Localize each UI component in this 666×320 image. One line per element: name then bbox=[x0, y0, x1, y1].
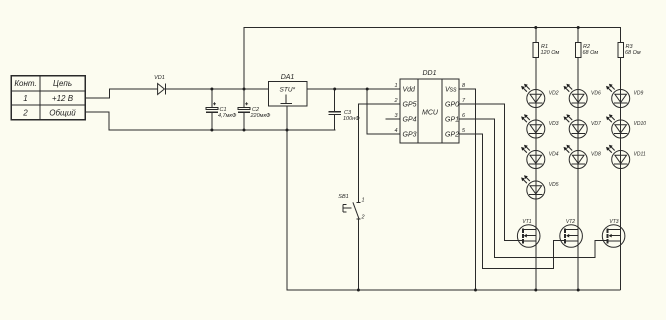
svg-text:VD9: VD9 bbox=[634, 91, 644, 97]
svg-text:68 Ом: 68 Ом bbox=[583, 50, 599, 56]
svg-text:1: 1 bbox=[362, 198, 365, 204]
svg-text:DA1: DA1 bbox=[281, 74, 295, 81]
svg-text:VD1: VD1 bbox=[154, 75, 165, 81]
svg-text:68 Ом: 68 Ом bbox=[625, 50, 641, 56]
svg-text:SB1: SB1 bbox=[338, 194, 348, 200]
svg-text:Цепь: Цепь bbox=[53, 79, 72, 88]
svg-text:GP4: GP4 bbox=[403, 117, 417, 124]
svg-text:VD8: VD8 bbox=[591, 152, 601, 158]
svg-text:Vdd: Vdd bbox=[403, 87, 417, 94]
svg-text:2: 2 bbox=[361, 215, 365, 221]
svg-text:4: 4 bbox=[394, 128, 397, 134]
svg-text:GP1: GP1 bbox=[445, 117, 459, 124]
svg-text:4,7мкФ: 4,7мкФ bbox=[218, 113, 237, 119]
svg-text:GP3: GP3 bbox=[403, 132, 417, 139]
svg-text:220мкФ: 220мкФ bbox=[250, 113, 272, 119]
svg-text:+12 В: +12 В bbox=[52, 94, 74, 103]
svg-text:VT2: VT2 bbox=[566, 219, 575, 225]
svg-text:VD7: VD7 bbox=[591, 121, 601, 127]
svg-text:MCU: MCU bbox=[422, 110, 439, 117]
svg-text:Общий: Общий bbox=[49, 109, 76, 118]
svg-text:VD2: VD2 bbox=[549, 91, 559, 97]
svg-text:VT3: VT3 bbox=[609, 219, 618, 225]
svg-text:VT1: VT1 bbox=[522, 219, 531, 225]
svg-text:VD10: VD10 bbox=[634, 121, 647, 127]
svg-text:100нФ: 100нФ bbox=[343, 116, 360, 122]
svg-text:Vss: Vss bbox=[445, 87, 457, 94]
svg-text:DD1: DD1 bbox=[422, 70, 436, 77]
svg-text:2: 2 bbox=[393, 98, 397, 104]
svg-text:Конт.: Конт. bbox=[14, 79, 36, 88]
svg-text:120 Ом: 120 Ом bbox=[541, 50, 560, 56]
svg-text:GP0: GP0 bbox=[445, 102, 459, 109]
svg-text:VD6: VD6 bbox=[591, 91, 601, 97]
svg-text:2: 2 bbox=[22, 109, 28, 118]
svg-text:VD4: VD4 bbox=[549, 152, 559, 158]
svg-text:VD11: VD11 bbox=[634, 152, 646, 158]
svg-text:STU*: STU* bbox=[280, 87, 296, 94]
svg-text:1: 1 bbox=[23, 94, 27, 103]
svg-text:GP2: GP2 bbox=[445, 132, 459, 139]
svg-text:1: 1 bbox=[394, 83, 397, 89]
svg-text:VD3: VD3 bbox=[549, 121, 559, 127]
svg-text:GP5: GP5 bbox=[403, 102, 417, 109]
svg-text:VD5: VD5 bbox=[549, 182, 559, 188]
